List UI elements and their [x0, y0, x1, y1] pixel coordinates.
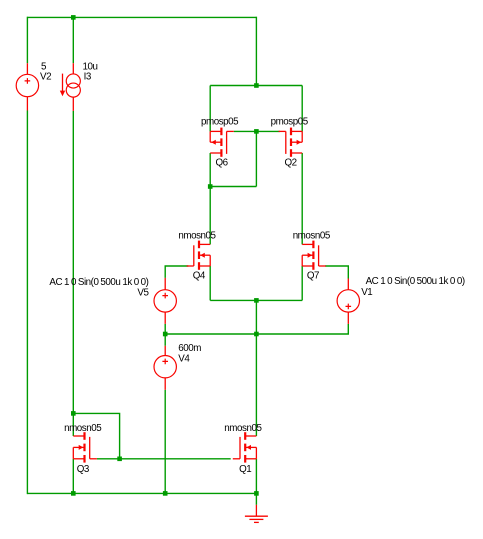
- junction Q3 drain jog: [71, 411, 76, 416]
- wire Q4 source down: [209, 266, 211, 300]
- wire Q2 source up: [301, 86, 303, 132]
- svg-text:Q2: Q2: [285, 157, 297, 168]
- svg-text:V5: V5: [137, 288, 149, 299]
- svg-text:600m: 600m: [178, 343, 201, 354]
- voltage source V4: [154, 346, 176, 390]
- junction V5 / V4 / mid rail: [163, 332, 168, 337]
- wire Q2 drain to Q7 drain (output node): [301, 153, 303, 244]
- wire top-right drop: [255, 17, 257, 86]
- svg-text:V4: V4: [178, 354, 190, 365]
- wire Q6 source up: [209, 86, 211, 132]
- wire Q6 drain to Q4 drain: [209, 153, 211, 244]
- current source I3: [60, 63, 81, 111]
- wire Q7 source down: [301, 266, 303, 300]
- svg-text:V1: V1: [361, 287, 372, 298]
- svg-text:pmosp05: pmosp05: [271, 117, 309, 128]
- junction Q6 drain / mirror wire: [208, 184, 213, 189]
- junction PMOS gate rail: [254, 129, 259, 134]
- junction V4 / ground rail: [163, 491, 168, 496]
- ground: [245, 505, 268, 523]
- junction mid rail / tail: [254, 332, 259, 337]
- svg-text:nmosn05: nmosn05: [178, 230, 216, 241]
- svg-text:nmosn05: nmosn05: [293, 230, 331, 241]
- wire V5 minus to mid rail: [164, 324, 166, 346]
- junction Q3 source / ground rail: [71, 491, 76, 496]
- svg-text:Q4: Q4: [193, 271, 206, 282]
- voltage source V5: [154, 278, 176, 324]
- svg-text:Q1: Q1: [239, 464, 251, 475]
- wire I3 to Q3 drain: [72, 111, 74, 436]
- svg-text:Q3: Q3: [77, 464, 90, 475]
- wire Q6 drain to mirror node: [210, 186, 256, 188]
- wire Q1 source to ground: [255, 459, 257, 505]
- wire gate rail drop to mirror: [255, 131, 257, 186]
- wire V4 minus to ground rail: [164, 390, 166, 494]
- junction PMOS source rail: [254, 83, 259, 88]
- voltage source V2: [16, 63, 38, 110]
- junction top rail / I3: [71, 15, 76, 20]
- svg-text:Q7: Q7: [307, 271, 319, 282]
- pmos transistor Q2: [279, 128, 303, 157]
- wire tail to Q1 drain: [255, 334, 257, 436]
- wire tail drop: [255, 300, 257, 334]
- wire left column lower (V2 bottom to ground rail): [26, 111, 28, 495]
- svg-text:V2: V2: [40, 71, 51, 82]
- wire bottom ground rail: [27, 492, 256, 494]
- svg-text:I3: I3: [84, 71, 92, 82]
- wire mid rail (V5/V4 node to V1 minus): [165, 324, 348, 334]
- wire Q3 gate to Q1 gate: [97, 458, 231, 460]
- svg-text:pmosp05: pmosp05: [201, 117, 239, 128]
- nmos transistor Q1: [233, 432, 257, 462]
- junction tail sources rail: [254, 298, 259, 303]
- junction Q1 source / ground rail: [254, 491, 259, 496]
- svg-text:AC 1 0 Sin(0 500u 1k 0 0): AC 1 0 Sin(0 500u 1k 0 0): [366, 276, 465, 287]
- voltage source V1: [337, 279, 359, 324]
- pmos transistor Q6: [210, 128, 234, 157]
- wire tail sources rail: [210, 299, 302, 301]
- svg-text:nmosn05: nmosn05: [224, 423, 262, 434]
- nmos transistor Q3: [73, 432, 97, 462]
- wire PMOS gate rail: [234, 130, 280, 132]
- svg-text:nmosn05: nmosn05: [64, 423, 102, 434]
- wire left column upper (V2 top): [26, 17, 28, 64]
- svg-text:Q6: Q6: [216, 157, 229, 168]
- nmos transistor Q7: [302, 241, 326, 270]
- svg-text:AC 1 0 Sin(0 500u 1k 0 0): AC 1 0 Sin(0 500u 1k 0 0): [49, 277, 148, 288]
- nmos transistor Q4: [187, 241, 211, 270]
- wire Q4 gate to V5: [165, 266, 188, 278]
- wire I3 column top: [72, 17, 74, 63]
- wire PMOS source rail: [210, 85, 302, 87]
- wire Q7 gate to V1: [325, 266, 348, 279]
- wire Q3 drain-gate jog: [73, 413, 119, 458]
- junction gate wire / jog: [117, 457, 122, 462]
- wire Q3 source to ground rail: [72, 459, 74, 494]
- wire top rail: [27, 16, 256, 18]
